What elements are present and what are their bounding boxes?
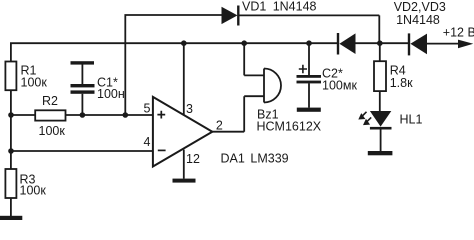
- svg-text:R2: R2: [42, 94, 58, 108]
- svg-text:HCM1612X: HCM1612X: [257, 120, 322, 134]
- svg-text:12: 12: [186, 152, 200, 166]
- svg-text:1.8к: 1.8к: [390, 76, 413, 90]
- svg-text:LM339: LM339: [250, 152, 288, 166]
- svg-text:HL1: HL1: [400, 113, 423, 127]
- svg-text:VD2,VD3: VD2,VD3: [394, 0, 446, 14]
- svg-text:100к: 100к: [21, 76, 48, 90]
- svg-text:+12 В: +12 В: [443, 25, 474, 39]
- svg-text:4: 4: [144, 135, 151, 149]
- svg-text:1N4148: 1N4148: [396, 13, 440, 27]
- svg-text:VD1: VD1: [242, 0, 266, 13]
- svg-text:3: 3: [186, 102, 193, 116]
- svg-text:100н: 100н: [97, 87, 125, 101]
- svg-text:1N4148: 1N4148: [273, 0, 317, 13]
- svg-text:2: 2: [216, 119, 223, 133]
- svg-text:DA1: DA1: [221, 152, 245, 166]
- svg-text:100мк: 100мк: [322, 79, 357, 93]
- svg-text:100к: 100к: [39, 124, 66, 138]
- svg-text:5: 5: [144, 101, 151, 115]
- svg-text:100к: 100к: [20, 184, 47, 198]
